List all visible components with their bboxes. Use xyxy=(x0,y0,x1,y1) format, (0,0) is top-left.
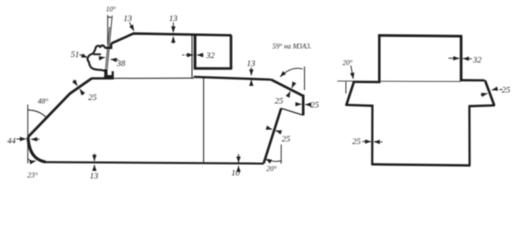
svg-text:23°: 23° xyxy=(27,171,38,180)
svg-text:44: 44 xyxy=(7,136,16,146)
svg-text:25: 25 xyxy=(88,92,97,102)
svg-text:13: 13 xyxy=(90,171,99,181)
svg-text:20°: 20° xyxy=(266,164,277,173)
svg-text:59° на М3А3.: 59° на М3А3. xyxy=(272,43,311,51)
svg-text:10°: 10° xyxy=(106,6,116,14)
svg-text:25: 25 xyxy=(502,85,511,95)
svg-text:25: 25 xyxy=(311,100,320,110)
svg-text:51: 51 xyxy=(71,49,80,59)
svg-text:25: 25 xyxy=(275,96,284,106)
svg-text:13: 13 xyxy=(247,58,256,68)
svg-text:48°: 48° xyxy=(38,97,49,106)
svg-text:- 32: - 32 xyxy=(201,50,215,60)
svg-text:13: 13 xyxy=(124,13,133,23)
svg-text:38: 38 xyxy=(116,58,126,68)
svg-text:25: 25 xyxy=(352,136,361,146)
svg-text:20°: 20° xyxy=(343,59,353,67)
svg-text:10: 10 xyxy=(231,168,240,178)
svg-text:13: 13 xyxy=(169,13,178,23)
svg-text:25: 25 xyxy=(282,134,291,144)
svg-text:32: 32 xyxy=(472,54,482,64)
